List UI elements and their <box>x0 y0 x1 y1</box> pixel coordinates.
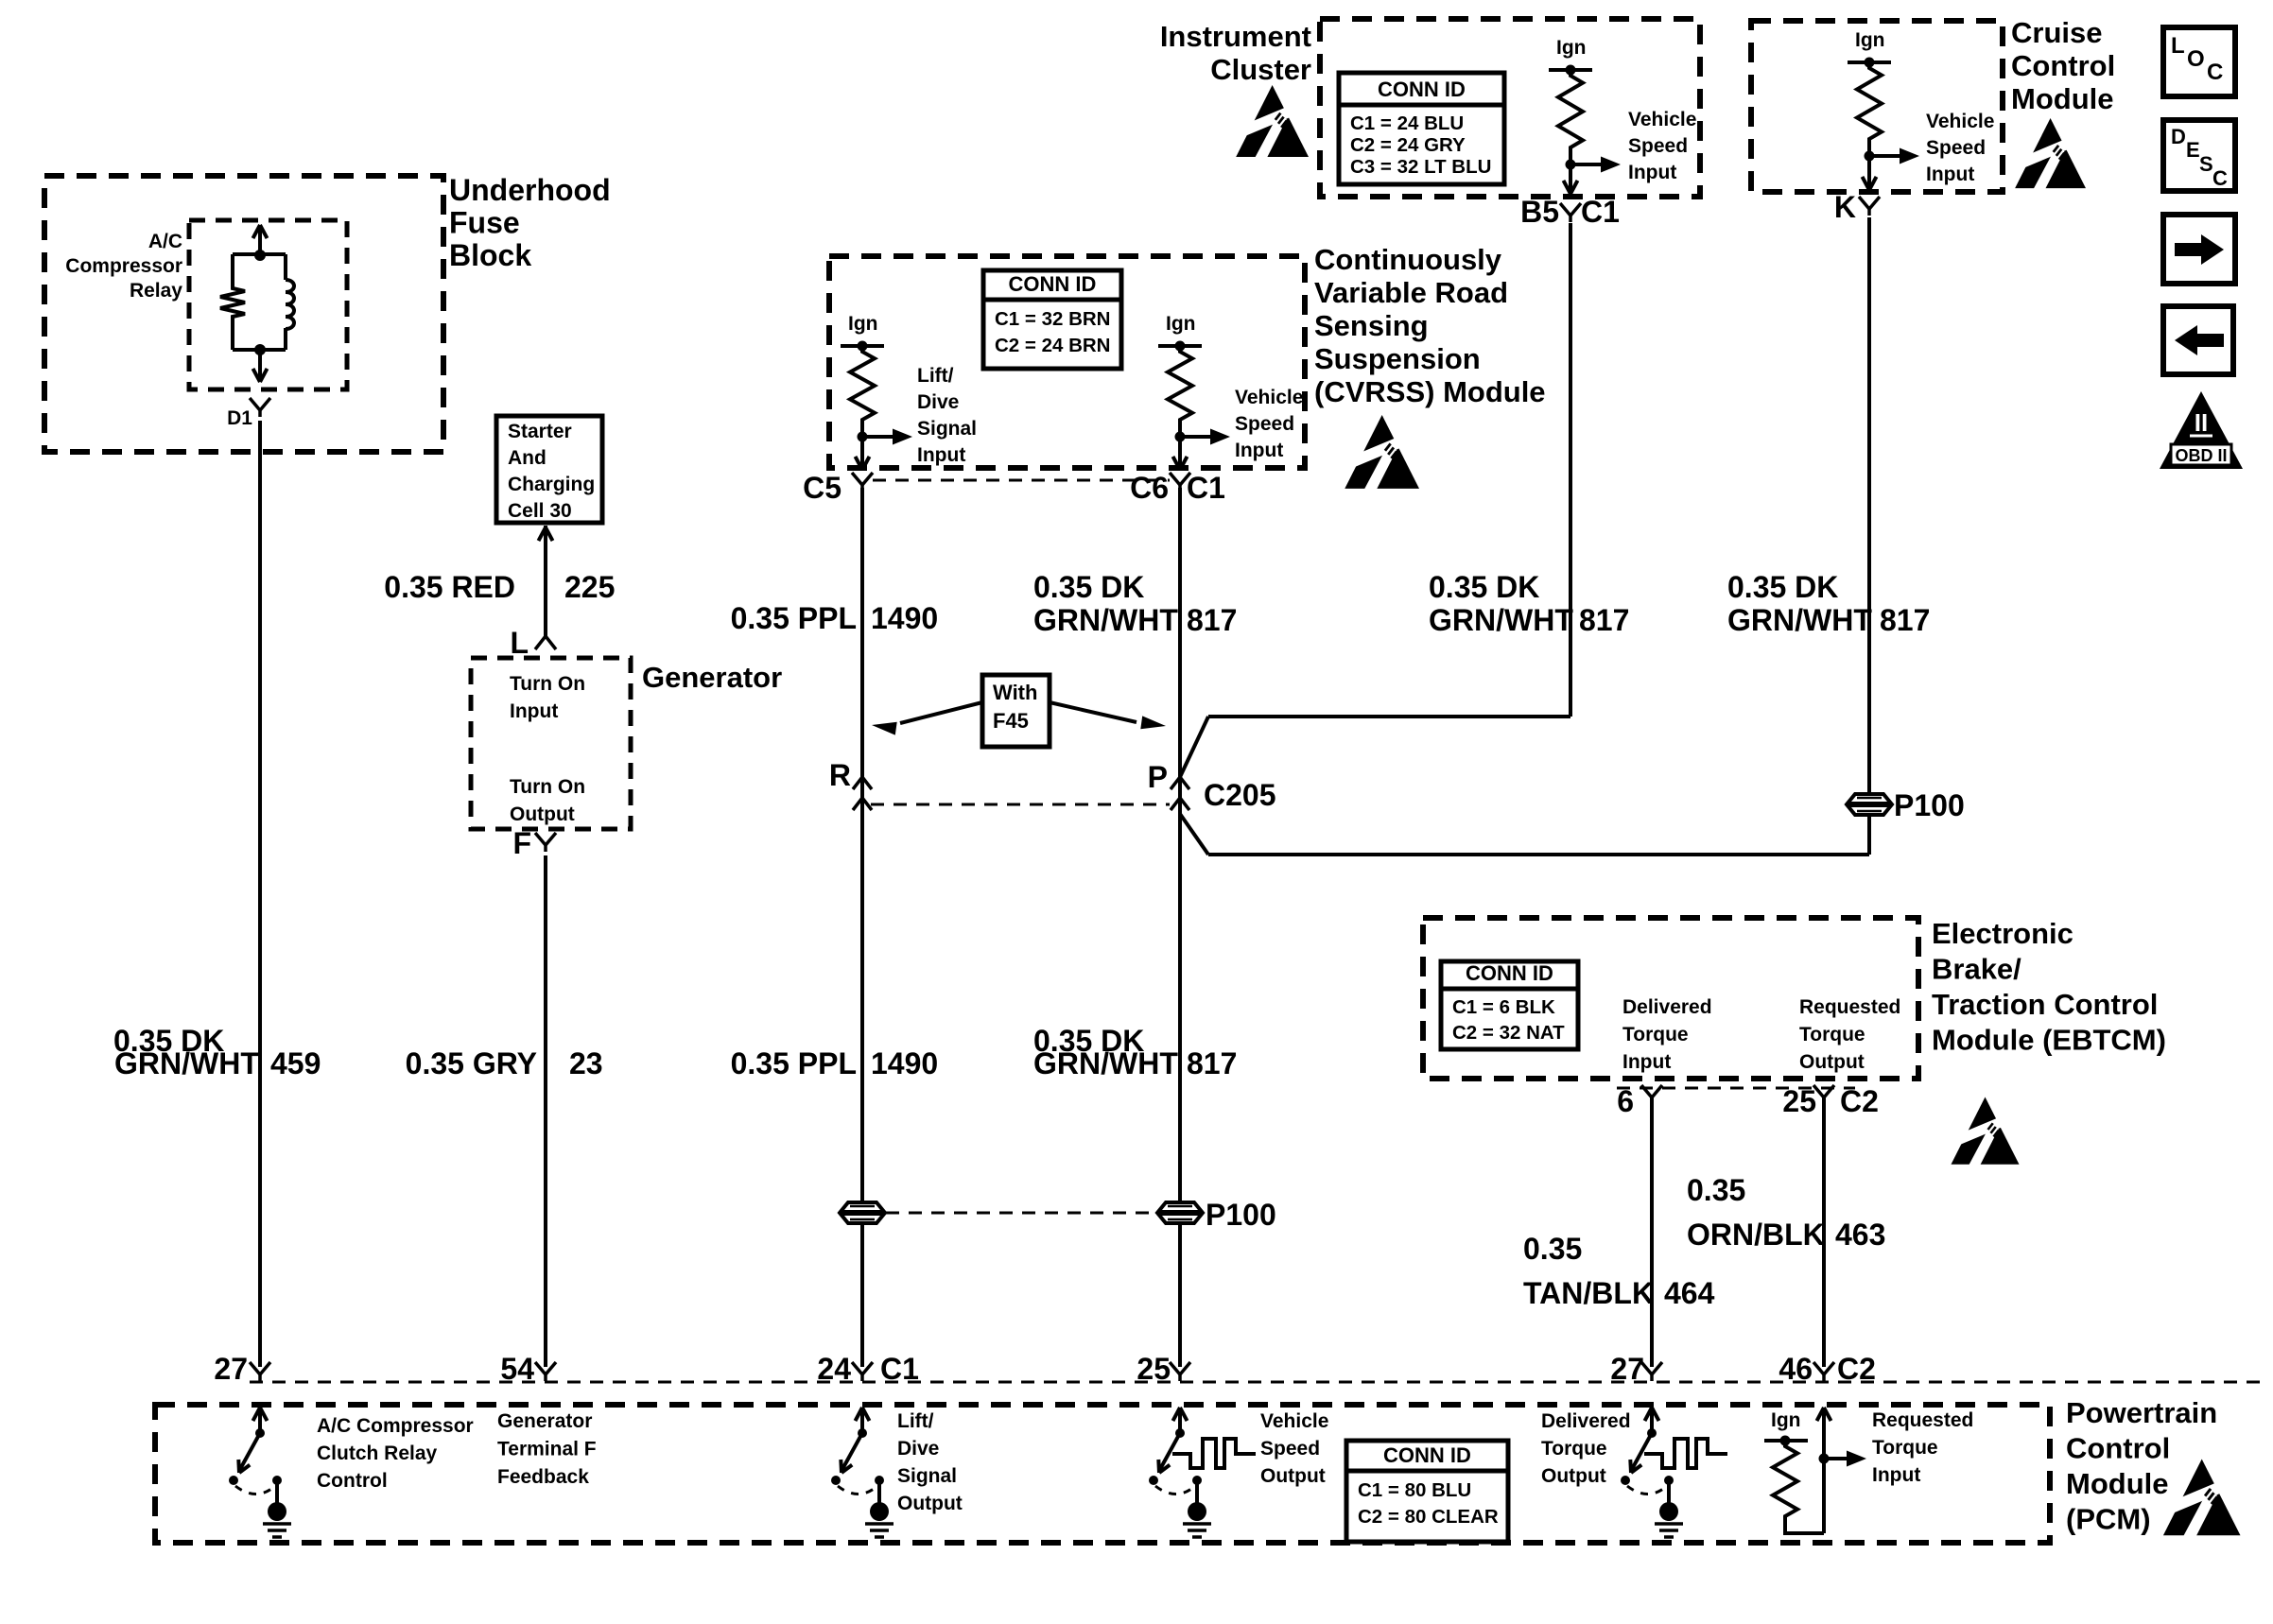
svg-text:B5: B5 <box>1520 195 1559 229</box>
svg-text:Charging: Charging <box>508 474 595 495</box>
svg-text:Traction Control: Traction Control <box>1932 988 2158 1021</box>
svg-text:(CVRSS) Module: (CVRSS) Module <box>1314 375 1546 408</box>
svg-text:0.35 GRY: 0.35 GRY <box>406 1046 537 1080</box>
svg-text:C1 = 24 BLU: C1 = 24 BLU <box>1350 112 1464 134</box>
svg-text:Torque: Torque <box>1622 1024 1689 1045</box>
svg-text:Ign: Ign <box>1771 1409 1801 1431</box>
svg-text:C1 = 80 BLU: C1 = 80 BLU <box>1358 1479 1471 1501</box>
svg-text:24: 24 <box>817 1352 851 1386</box>
svg-text:K: K <box>1834 190 1856 224</box>
svg-text:F45: F45 <box>993 709 1029 733</box>
svg-text:Dive: Dive <box>897 1438 939 1460</box>
svg-text:II: II <box>2195 408 2208 437</box>
svg-text:TAN/BLK: TAN/BLK <box>1523 1276 1654 1310</box>
svg-text:0.35: 0.35 <box>1523 1232 1582 1266</box>
svg-text:Ign: Ign <box>848 313 878 335</box>
svg-text:C5: C5 <box>803 471 842 505</box>
svg-text:Ign: Ign <box>1556 37 1587 59</box>
svg-text:C205: C205 <box>1204 778 1276 812</box>
svg-text:817: 817 <box>1187 1046 1237 1080</box>
svg-text:OBD II: OBD II <box>2175 446 2227 465</box>
svg-text:Delivered: Delivered <box>1622 996 1712 1018</box>
svg-text:C1: C1 <box>880 1352 919 1386</box>
svg-text:Speed: Speed <box>1260 1438 1320 1460</box>
svg-text:C3 = 32 LT BLU: C3 = 32 LT BLU <box>1350 156 1491 178</box>
svg-text:Generator: Generator <box>642 661 782 694</box>
svg-text:C: C <box>2212 166 2228 190</box>
svg-text:Continuously: Continuously <box>1314 243 1502 276</box>
svg-text:Output: Output <box>1541 1465 1606 1487</box>
svg-text:Speed: Speed <box>1926 137 1986 159</box>
svg-text:Module: Module <box>2011 82 2114 115</box>
svg-text:0.35 PPL: 0.35 PPL <box>731 1046 857 1080</box>
svg-text:0.35 DK: 0.35 DK <box>1727 570 1838 604</box>
svg-text:Powertrain: Powertrain <box>2066 1396 2217 1429</box>
svg-text:D: D <box>2171 125 2186 148</box>
svg-text:Input: Input <box>1628 162 1676 183</box>
svg-text:Lift/: Lift/ <box>897 1410 934 1432</box>
svg-text:Cell 30: Cell 30 <box>508 500 572 522</box>
svg-text:27: 27 <box>1610 1352 1644 1386</box>
svg-text:ORN/BLK: ORN/BLK <box>1687 1218 1825 1252</box>
svg-text:CONN ID: CONN ID <box>1383 1443 1471 1467</box>
svg-text:1490: 1490 <box>871 1046 938 1080</box>
svg-text:GRN/WHT: GRN/WHT <box>1033 603 1178 637</box>
svg-text:P: P <box>1148 760 1168 794</box>
svg-text:Signal: Signal <box>917 418 977 440</box>
svg-text:GRN/WHT: GRN/WHT <box>1033 1046 1178 1080</box>
svg-text:Ign: Ign <box>1855 29 1885 51</box>
svg-text:GRN/WHT: GRN/WHT <box>1727 603 1872 637</box>
svg-text:Cruise: Cruise <box>2011 16 2102 49</box>
svg-text:Turn On: Turn On <box>510 776 585 798</box>
svg-text:Starter: Starter <box>508 421 572 442</box>
svg-text:CONN ID: CONN ID <box>1009 272 1097 296</box>
svg-text:Relay: Relay <box>130 280 182 302</box>
svg-text:0.35: 0.35 <box>1687 1173 1745 1207</box>
svg-text:C2 = 32 NAT: C2 = 32 NAT <box>1452 1022 1565 1044</box>
svg-text:C2 = 24 BRN: C2 = 24 BRN <box>995 335 1110 356</box>
svg-text:817: 817 <box>1579 603 1629 637</box>
svg-text:1490: 1490 <box>871 601 938 635</box>
svg-text:0.35 PPL: 0.35 PPL <box>731 601 857 635</box>
svg-text:F: F <box>512 826 531 860</box>
svg-text:464: 464 <box>1664 1276 1715 1310</box>
svg-text:C1: C1 <box>1187 471 1225 505</box>
svg-text:Underhood: Underhood <box>449 173 611 207</box>
svg-text:Requested: Requested <box>1799 996 1900 1018</box>
svg-text:D1: D1 <box>227 407 252 429</box>
svg-text:25: 25 <box>1782 1084 1816 1118</box>
svg-text:C: C <box>2207 60 2223 85</box>
svg-text:Generator: Generator <box>497 1410 592 1432</box>
svg-text:Speed: Speed <box>1628 135 1688 157</box>
svg-text:Signal: Signal <box>897 1465 957 1487</box>
svg-text:Cluster: Cluster <box>1210 53 1311 86</box>
svg-text:Electronic: Electronic <box>1932 917 2073 950</box>
svg-text:Brake/: Brake/ <box>1932 953 2021 986</box>
svg-text:R: R <box>829 758 851 792</box>
svg-text:C6: C6 <box>1130 471 1169 505</box>
svg-text:Module (EBTCM): Module (EBTCM) <box>1932 1024 2166 1057</box>
svg-text:And: And <box>508 447 547 469</box>
svg-text:Delivered: Delivered <box>1541 1410 1631 1432</box>
svg-text:P100: P100 <box>1206 1198 1276 1232</box>
svg-text:Output: Output <box>1260 1465 1326 1487</box>
svg-text:Vehicle: Vehicle <box>1926 111 1994 132</box>
svg-text:Vehicle: Vehicle <box>1260 1410 1328 1432</box>
svg-text:C2 = 80 CLEAR: C2 = 80 CLEAR <box>1358 1506 1499 1528</box>
svg-text:L: L <box>510 626 529 660</box>
svg-text:Output: Output <box>1799 1051 1865 1073</box>
svg-text:817: 817 <box>1187 603 1237 637</box>
svg-text:46: 46 <box>1778 1352 1813 1386</box>
svg-text:Ign: Ign <box>1166 313 1196 335</box>
svg-text:817: 817 <box>1880 603 1930 637</box>
svg-text:6: 6 <box>1617 1084 1634 1118</box>
svg-text:S: S <box>2199 152 2213 176</box>
svg-text:O: O <box>2187 46 2205 72</box>
svg-text:Output: Output <box>897 1493 963 1514</box>
svg-text:Block: Block <box>449 238 531 272</box>
svg-text:Input: Input <box>510 700 558 722</box>
svg-text:Dive: Dive <box>917 391 959 413</box>
svg-text:C2: C2 <box>1837 1352 1876 1386</box>
svg-text:Clutch Relay: Clutch Relay <box>317 1443 438 1464</box>
svg-text:C1 = 32 BRN: C1 = 32 BRN <box>995 308 1110 330</box>
svg-text:Control: Control <box>2066 1432 2170 1465</box>
svg-text:225: 225 <box>564 570 615 604</box>
svg-text:Input: Input <box>1926 164 1974 185</box>
svg-text:Input: Input <box>1872 1464 1920 1486</box>
svg-text:C1 = 6 BLK: C1 = 6 BLK <box>1452 996 1555 1018</box>
svg-text:C2 = 24 GRY: C2 = 24 GRY <box>1350 134 1466 156</box>
svg-text:Vehicle: Vehicle <box>1235 387 1303 408</box>
svg-text:Torque: Torque <box>1872 1437 1938 1459</box>
svg-text:With: With <box>993 681 1037 704</box>
svg-text:Turn On: Turn On <box>510 673 585 695</box>
svg-text:Input: Input <box>917 444 965 466</box>
svg-text:P100: P100 <box>1894 788 1965 822</box>
svg-text:A/C Compressor: A/C Compressor <box>317 1415 474 1437</box>
svg-text:Instrument: Instrument <box>1160 20 1311 53</box>
svg-text:Input: Input <box>1622 1051 1671 1073</box>
svg-text:GRN/WHT: GRN/WHT <box>1429 603 1573 637</box>
svg-text:463: 463 <box>1835 1218 1885 1252</box>
svg-text:Vehicle: Vehicle <box>1628 109 1696 130</box>
svg-text:Speed: Speed <box>1235 413 1294 435</box>
svg-text:54: 54 <box>500 1352 534 1386</box>
svg-text:0.35 DK: 0.35 DK <box>1033 570 1144 604</box>
svg-text:Sensing: Sensing <box>1314 309 1429 342</box>
svg-text:Suspension: Suspension <box>1314 342 1481 375</box>
svg-text:Control: Control <box>317 1470 388 1492</box>
svg-text:Input: Input <box>1235 440 1283 461</box>
svg-text:Requested: Requested <box>1872 1409 1973 1431</box>
svg-text:Torque: Torque <box>1541 1438 1607 1460</box>
svg-text:23: 23 <box>569 1046 603 1080</box>
svg-text:Control: Control <box>2011 49 2115 82</box>
svg-text:C2: C2 <box>1840 1084 1879 1118</box>
svg-text:A/C: A/C <box>148 231 182 252</box>
svg-text:Variable Road: Variable Road <box>1314 276 1508 309</box>
svg-text:Lift/: Lift/ <box>917 365 954 387</box>
svg-text:Module: Module <box>2066 1467 2169 1500</box>
svg-text:Fuse: Fuse <box>449 206 520 240</box>
svg-text:Compressor: Compressor <box>65 255 182 277</box>
svg-text:CONN ID: CONN ID <box>1466 961 1553 985</box>
svg-text:L: L <box>2171 33 2185 59</box>
svg-text:E: E <box>2186 138 2200 162</box>
svg-text:Torque: Torque <box>1799 1024 1865 1045</box>
svg-text:CONN ID: CONN ID <box>1378 78 1466 101</box>
svg-text:Output: Output <box>510 803 575 825</box>
svg-text:27: 27 <box>214 1352 248 1386</box>
svg-text:0.35 DK: 0.35 DK <box>1429 570 1539 604</box>
svg-text:0.35 RED: 0.35 RED <box>384 570 515 604</box>
svg-text:25: 25 <box>1136 1352 1171 1386</box>
svg-text:459: 459 <box>270 1046 321 1080</box>
svg-text:GRN/WHT: GRN/WHT <box>114 1046 259 1080</box>
svg-text:C1: C1 <box>1581 195 1620 229</box>
svg-text:(PCM): (PCM) <box>2066 1503 2151 1536</box>
svg-text:Terminal F: Terminal F <box>497 1439 597 1460</box>
svg-text:Feedback: Feedback <box>497 1466 589 1488</box>
